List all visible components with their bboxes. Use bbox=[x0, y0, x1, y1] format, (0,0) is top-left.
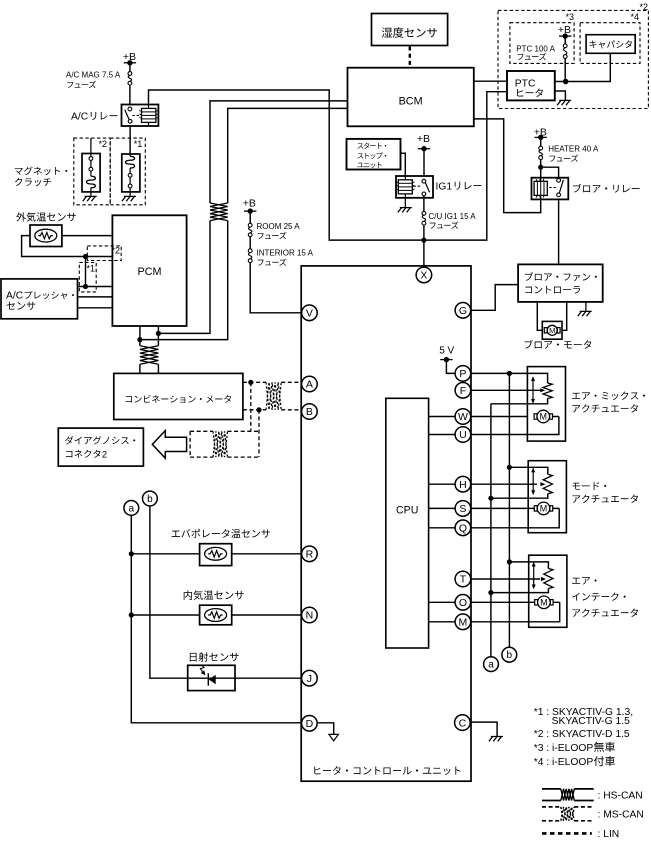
ground IG1 relay coil bbox=[404, 198, 406, 208]
pin O bbox=[455, 595, 471, 611]
motor mode bbox=[534, 506, 537, 511]
ground fan controller bbox=[585, 302, 587, 312]
wire G to fan controller bbox=[471, 285, 519, 311]
svg-text:M: M bbox=[540, 504, 548, 514]
wire sensor to PCM upper bbox=[62, 235, 113, 237]
svg-text:M: M bbox=[459, 617, 468, 629]
svg-text:*2: *2 bbox=[639, 2, 648, 12]
wire U air mix motor return bbox=[429, 417, 559, 435]
MS-CAN twist diagnosis bbox=[213, 431, 228, 457]
label room temp sensor bbox=[184, 590, 244, 600]
solar sensor box bbox=[188, 665, 235, 690]
node a left bbox=[124, 501, 139, 516]
intake position arrow bbox=[533, 565, 535, 586]
node a room junction bbox=[129, 612, 134, 617]
ground D floating bbox=[329, 734, 339, 741]
svg-text:A/C: A/C bbox=[6, 291, 24, 302]
fuse C/U IG1 15 A bbox=[422, 212, 426, 216]
svg-text:R: R bbox=[306, 549, 314, 561]
wire A/C relay switch to clutch bbox=[129, 126, 131, 154]
dashed box *1 near PCM bbox=[79, 263, 96, 292]
air mix wiper arrow bbox=[540, 388, 545, 392]
HS-CAN twist BCM-PCM bbox=[210, 203, 228, 221]
node CAN1 junction bbox=[156, 331, 161, 336]
node CAN2 junction bbox=[137, 337, 142, 342]
start stop unit box bbox=[347, 139, 401, 170]
svg-text:*3: *3 bbox=[565, 12, 574, 22]
wire PCM to meter line2 bbox=[139, 326, 141, 373]
svg-text:M: M bbox=[549, 326, 555, 335]
wire intake resistor bottom to line a bbox=[491, 589, 549, 593]
svg-text:*4 : i-ELOOP: *4 : i-ELOOP bbox=[534, 757, 594, 768]
label diagnosis connector 2 bbox=[65, 436, 135, 445]
svg-text:: MS-CAN: : MS-CAN bbox=[598, 809, 644, 820]
wire fuse to blower relay bbox=[541, 160, 559, 178]
wire MS-CAN diagnosis bottom bbox=[190, 456, 258, 458]
PTC heater box bbox=[507, 71, 555, 100]
fuse ROOM 25 A bbox=[248, 223, 252, 227]
node junction *1 tie lower bbox=[83, 284, 88, 289]
IG1 relay link bbox=[413, 185, 420, 187]
legend HS-CAN symbol bbox=[542, 789, 594, 801]
HS-CAN twist PCM-meter bbox=[140, 346, 159, 365]
mode wiper arrow bbox=[540, 482, 545, 486]
motor air mix bbox=[534, 414, 537, 419]
wire J solar sensor bbox=[188, 677, 302, 679]
svg-text:V: V bbox=[306, 308, 313, 320]
svg-text:*1: *1 bbox=[86, 263, 95, 273]
pin S bbox=[455, 501, 471, 517]
magnet clutch *1 box bbox=[122, 154, 140, 192]
pin A bbox=[302, 376, 318, 392]
wire start stop unit to IG1 relay coil bbox=[401, 153, 406, 176]
svg-text:W: W bbox=[458, 411, 468, 423]
heater control unit box bbox=[301, 266, 471, 781]
node PTC feed bbox=[563, 79, 569, 85]
svg-text:2: 2 bbox=[102, 449, 107, 459]
fuse INTERIOR 15 A bbox=[248, 249, 252, 253]
relay A/C (A/C relay) bbox=[122, 105, 159, 127]
CPU box bbox=[386, 398, 429, 648]
svg-text:BCM: BCM bbox=[399, 96, 423, 108]
svg-text:: HS-CAN: : HS-CAN bbox=[598, 790, 643, 801]
svg-text:+B: +B bbox=[243, 198, 256, 210]
wire P to air mix resistor bbox=[471, 373, 548, 383]
node b right bbox=[502, 647, 517, 662]
wire LIN humidity-BCM bbox=[409, 47, 411, 67]
svg-text:a: a bbox=[129, 503, 135, 514]
wire mode resistor bottom to line a bbox=[491, 494, 548, 498]
svg-text:INTERIOR 15 A: INTERIOR 15 A bbox=[257, 248, 314, 257]
wire pressure sensor 2 bbox=[78, 296, 113, 298]
air mix position arrow bbox=[532, 380, 534, 401]
node a evap junction bbox=[129, 551, 134, 556]
wire fan controller to motor right bbox=[562, 302, 567, 330]
label capacitor bbox=[590, 40, 632, 48]
legend MS-CAN symbol bbox=[542, 807, 594, 821]
svg-text:T: T bbox=[460, 574, 467, 586]
fuse A/C MAG 7.5 A bbox=[128, 72, 132, 76]
IG1 relay switch bbox=[422, 179, 426, 183]
wire IG1 switch to fuse bbox=[423, 196, 425, 212]
resistor intake potentiometer bbox=[544, 569, 553, 589]
svg-text:+B: +B bbox=[417, 133, 430, 145]
label heater control unit bbox=[314, 766, 460, 775]
wire fuse to A/C relay switch bbox=[129, 85, 131, 104]
svg-text:5 V: 5 V bbox=[439, 346, 454, 357]
dashed box *2 near PCM bbox=[87, 246, 121, 261]
photodiode solar sensor bbox=[209, 675, 216, 685]
wire MS-CAN riser A to diagnosis bbox=[250, 382, 252, 431]
svg-text:H: H bbox=[459, 479, 467, 491]
pin T bbox=[455, 571, 471, 587]
wire CPU-S bbox=[429, 507, 535, 509]
ground magnet clutch *1 bbox=[129, 192, 131, 197]
node line b mode branch bbox=[507, 465, 512, 470]
label humidity sensor bbox=[382, 27, 437, 37]
svg-text:A: A bbox=[306, 379, 313, 391]
wire BCM to blower relay coil bbox=[474, 119, 541, 213]
wire N room temp sensor bbox=[131, 614, 302, 616]
pin C bbox=[455, 715, 471, 731]
svg-text:PCM: PCM bbox=[138, 266, 162, 278]
label air intake actuator bbox=[572, 577, 596, 584]
wire line b left bbox=[150, 506, 188, 678]
arrow goes-to symbol bbox=[152, 431, 186, 459]
label start stop unit bbox=[357, 143, 386, 149]
wire PTC fuse down to node bbox=[564, 58, 566, 81]
wire CPU-T bbox=[471, 578, 541, 580]
svg-text:Q: Q bbox=[459, 523, 467, 535]
label evaporator temp sensor bbox=[172, 529, 270, 538]
wire MS-CAN diagnosis left end bbox=[189, 431, 191, 457]
wire line a left bbox=[131, 515, 302, 723]
blower relay link bbox=[549, 187, 556, 189]
fan controller box bbox=[518, 264, 603, 302]
svg-text:b: b bbox=[507, 650, 513, 661]
wire +B to fuse bbox=[129, 63, 131, 72]
pin Q bbox=[455, 520, 471, 536]
BCM box bbox=[348, 68, 474, 127]
wire sensor return to PCM bbox=[22, 236, 113, 257]
wire CPU-M + intake motor return bbox=[429, 602, 560, 622]
fuse PTC 100 A bbox=[563, 44, 567, 48]
wire +B to ROOM fuse bbox=[249, 211, 251, 223]
wire pressure sensor 1 bbox=[78, 286, 113, 288]
svg-text:P: P bbox=[459, 368, 466, 380]
pin X bbox=[416, 267, 432, 283]
wire F to air mix wiper bbox=[471, 389, 542, 391]
A/C pressure sensor box bbox=[1, 279, 78, 319]
pin F bbox=[455, 383, 471, 399]
wire HS-CAN BCM to PCM line2 bbox=[140, 108, 348, 339]
svg-text:PTC: PTC bbox=[515, 78, 536, 89]
wire line a bbox=[490, 404, 492, 657]
pin G bbox=[455, 303, 471, 319]
wire ROOM to INTERIOR fuse bbox=[249, 237, 251, 249]
svg-text:D: D bbox=[306, 718, 314, 730]
wire D ground bbox=[317, 723, 334, 735]
node line a intake junction bbox=[488, 590, 493, 595]
blower relay coil bbox=[540, 178, 542, 200]
intake wiper arrow bbox=[541, 577, 546, 581]
wire PTC heater ground bbox=[555, 91, 566, 100]
wire MS-CAN meter to A bbox=[243, 381, 302, 383]
relay blower bbox=[532, 178, 569, 200]
svg-text:M: M bbox=[540, 598, 548, 608]
node b left bbox=[143, 491, 158, 506]
magnet clutch *2 element bbox=[90, 154, 92, 192]
pin B bbox=[302, 404, 318, 420]
fuse HEATER 40 A bbox=[539, 146, 543, 150]
wire pressure sensor 3 bbox=[78, 307, 113, 309]
actuator mode box bbox=[528, 461, 566, 533]
room temp sensor box bbox=[200, 605, 232, 625]
node line a mode junction bbox=[488, 496, 493, 501]
wire +B to HEATER fuse bbox=[540, 137, 542, 146]
svg-text:X: X bbox=[420, 270, 427, 282]
actuator air intake box bbox=[529, 555, 567, 627]
svg-text:PTC 100 A: PTC 100 A bbox=[516, 45, 555, 54]
wire PTC heater to capacitor bbox=[555, 53, 611, 81]
label blower motor bbox=[525, 340, 592, 349]
svg-text:: LIN: : LIN bbox=[598, 829, 620, 840]
thermistor evaporator bbox=[205, 547, 227, 560]
A/C relay link bbox=[132, 114, 139, 116]
wire MS-CAN riser B to diagnosis bbox=[258, 410, 260, 457]
node A branch bbox=[248, 380, 253, 385]
combination meter box bbox=[114, 373, 243, 419]
svg-text:M: M bbox=[540, 412, 548, 422]
actuator air mix box bbox=[527, 367, 565, 442]
wire blower relay to fan controller bbox=[558, 199, 560, 264]
wire 5V to P bbox=[446, 360, 455, 374]
wire line b to mode resistor bbox=[509, 467, 547, 474]
svg-text:HEATER 40 A: HEATER 40 A bbox=[548, 144, 599, 153]
pin M bbox=[455, 614, 471, 630]
capacitor box bbox=[586, 35, 635, 54]
svg-text:*1: *1 bbox=[134, 139, 143, 149]
svg-text:*3 : i-ELOOP: *3 : i-ELOOP bbox=[534, 743, 594, 754]
dashed box *2 PTC system bbox=[498, 10, 648, 108]
dashed box *3 PTC fuse bbox=[510, 23, 574, 64]
node P branch line b bbox=[507, 371, 512, 376]
svg-text:S: S bbox=[459, 503, 466, 515]
evaporator temp sensor box bbox=[200, 544, 232, 566]
label solar sensor bbox=[190, 652, 239, 661]
diagnosis connector 2 box bbox=[58, 428, 143, 466]
svg-text:b: b bbox=[147, 494, 153, 505]
pin D bbox=[302, 716, 318, 732]
label outside air temp sensor bbox=[16, 212, 76, 221]
svg-text:F: F bbox=[460, 385, 466, 397]
wire CPU-H bbox=[429, 483, 537, 485]
thermistor room temp bbox=[205, 609, 227, 622]
blower relay switch bbox=[557, 178, 561, 182]
wire +B to IG1 relay switch bbox=[423, 149, 425, 176]
wire +B to PTC fuse bbox=[564, 36, 566, 44]
pin J bbox=[302, 670, 318, 686]
motor air intake bbox=[535, 600, 538, 605]
humidity sensor box bbox=[372, 14, 448, 46]
wire CPU-O bbox=[429, 601, 535, 603]
PCM box bbox=[112, 215, 186, 326]
resistor mode potentiometer bbox=[543, 474, 552, 494]
svg-text:O: O bbox=[459, 597, 467, 609]
svg-text:*4: *4 bbox=[630, 12, 639, 22]
ground C bbox=[489, 737, 503, 742]
svg-text:A/C MAG 7.5 A: A/C MAG 7.5 A bbox=[66, 70, 121, 79]
svg-text:C: C bbox=[459, 717, 467, 729]
wire air mix resistor bottom to line a bbox=[491, 399, 548, 404]
wire line b to intake resistor bbox=[509, 562, 548, 569]
pin H bbox=[455, 476, 471, 492]
wire MS-CAN diagnosis top bbox=[190, 430, 258, 432]
node B branch bbox=[256, 407, 261, 412]
node a right bbox=[484, 657, 499, 672]
label mode actuator bbox=[572, 482, 606, 490]
svg-text:*2: *2 bbox=[98, 139, 107, 149]
svg-text:A/C: A/C bbox=[71, 112, 89, 123]
label magnet clutch bbox=[15, 167, 67, 176]
svg-text:U: U bbox=[459, 429, 467, 441]
mode position arrow bbox=[532, 471, 534, 492]
wire *1 tie bbox=[85, 257, 87, 287]
dashed box *2 variant clutch bbox=[74, 138, 110, 205]
MS-CAN twist meter-unit bbox=[266, 382, 281, 410]
wire CPU-Q + mode motor return bbox=[429, 508, 560, 527]
svg-text:a: a bbox=[488, 660, 494, 671]
svg-text:SKYACTIV-G 1.5: SKYACTIV-G 1.5 bbox=[552, 716, 630, 727]
dashed box *4 capacitor bbox=[580, 23, 640, 64]
node IG junction bbox=[421, 238, 426, 243]
svg-text:ROOM 25 A: ROOM 25 A bbox=[257, 222, 301, 231]
pin V bbox=[302, 305, 318, 321]
pin P bbox=[455, 366, 471, 382]
svg-text:B: B bbox=[306, 406, 313, 418]
svg-text:*2 : SKYACTIV-D 1.5: *2 : SKYACTIV-D 1.5 bbox=[534, 729, 630, 740]
wire C ground bbox=[471, 722, 498, 736]
label blower fan controller bbox=[525, 272, 597, 281]
outside air temp sensor box bbox=[30, 225, 62, 247]
thermistor outside air temp bbox=[35, 229, 57, 242]
svg-text:*2: *2 bbox=[111, 246, 120, 256]
wire INTERIOR fuse to V bbox=[250, 263, 302, 313]
motor blower bbox=[544, 328, 547, 333]
svg-text:G: G bbox=[459, 305, 467, 317]
A/C relay coil bbox=[148, 105, 150, 127]
node blower feed bbox=[538, 165, 543, 170]
wire line b bbox=[508, 373, 510, 647]
label blower relay bbox=[573, 184, 639, 193]
relay IG1 bbox=[396, 176, 433, 198]
svg-text:IG1: IG1 bbox=[436, 181, 453, 192]
magnet clutch *1 element bbox=[129, 154, 131, 192]
svg-text:C/U IG1 15 A: C/U IG1 15 A bbox=[429, 212, 477, 221]
blower motor box bbox=[542, 321, 562, 339]
wire PCM to meter line1 bbox=[157, 326, 159, 373]
wire fan controller to motor left bbox=[537, 302, 542, 330]
node junction *1 tie upper bbox=[83, 254, 88, 259]
svg-text:N: N bbox=[306, 610, 314, 622]
IG1 relay coil bbox=[404, 176, 406, 198]
wire HS-CAN BCM to PCM line1 bbox=[158, 101, 347, 334]
svg-text:CPU: CPU bbox=[396, 505, 418, 517]
pin W bbox=[455, 409, 471, 425]
ground magnet clutch *2 bbox=[90, 192, 92, 197]
pin U bbox=[455, 427, 471, 443]
svg-text:J: J bbox=[307, 673, 312, 685]
magnet clutch *2 box bbox=[90, 138, 92, 153]
pin R bbox=[302, 546, 318, 562]
node line b intake branch bbox=[507, 559, 512, 564]
wire BCM to PTC heater bbox=[474, 80, 507, 82]
legend LIN symbol bbox=[542, 832, 592, 835]
wire MS-CAN meter to B bbox=[243, 409, 302, 411]
wire R evaporator sensor bbox=[131, 553, 302, 555]
label air mix actuator bbox=[572, 391, 645, 400]
A/C relay switch bbox=[128, 107, 132, 111]
dashed box *1 variant clutch bbox=[110, 138, 145, 205]
wire IG line: A/C relay coil - BCM riser - PTC heater bbox=[149, 90, 508, 240]
label combination meter bbox=[126, 395, 231, 403]
wire CPU-W bbox=[429, 416, 528, 418]
pin N bbox=[302, 607, 318, 623]
wire fuse to node X bbox=[423, 225, 425, 267]
ground PTC heater bbox=[557, 100, 571, 105]
resistor air mix potentiometer bbox=[543, 383, 552, 399]
